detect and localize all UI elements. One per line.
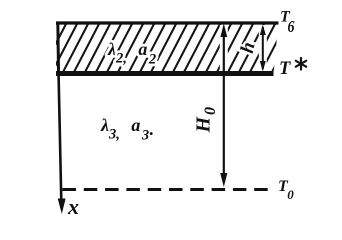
label H0 (rotated) bbox=[193, 107, 220, 134]
wire: top surface line (T_B boundary) bbox=[56, 21, 279, 24]
hatching of layer 2 bbox=[40, 24, 297, 74]
label h (rotated) bbox=[237, 40, 260, 55]
svg-text:6: 6 bbox=[288, 18, 295, 37]
white channel around h arrow in hatch bbox=[259, 25, 267, 71]
svg-text:H0: H0 bbox=[193, 107, 220, 134]
svg-text:T: T bbox=[279, 59, 291, 79]
white channel around H0 arrow in hatch bbox=[220, 25, 228, 71]
asterisk of T* bbox=[296, 58, 306, 70]
arrowhead H0 down bbox=[220, 173, 227, 187]
svg-text:T0: T0 bbox=[278, 178, 294, 202]
wire: x axis vertical line bbox=[59, 76, 62, 201]
arrowhead h down bbox=[260, 61, 266, 72]
arrowhead x axis bbox=[58, 199, 66, 215]
svg-text:h: h bbox=[237, 40, 260, 55]
wire: dashed T0 line bbox=[63, 188, 275, 191]
wire: bottom surface line of layer 2 (T* boundary) bbox=[56, 71, 274, 76]
arrowhead H0 up bbox=[220, 24, 227, 38]
arrow h line bbox=[262, 27, 264, 69]
svg-text:λ3,a3.: λ3,a3. bbox=[100, 115, 154, 144]
svg-text:λ2,a2: λ2,a2 bbox=[107, 39, 156, 68]
arrow H0 line bbox=[223, 28, 225, 182]
svg-text:x: x bbox=[67, 194, 79, 219]
wire: left edge of layer 2 bbox=[56, 22, 60, 77]
arrowhead h up bbox=[260, 25, 266, 36]
